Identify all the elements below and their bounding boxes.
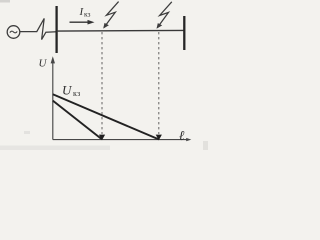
voltage profile line to fault 1 (steep) <box>53 101 102 140</box>
lightning bolt fault 2 <box>157 2 172 29</box>
svg-text:кз: кз <box>84 10 91 19</box>
marker triangle at fault 1 projection <box>99 135 105 141</box>
left busbar <box>55 6 57 53</box>
transmission line (wire between busbars) <box>57 29 185 32</box>
dashed projection from fault 1 <box>101 32 103 134</box>
l axis (horizontal) with arrow <box>53 138 192 141</box>
marker triangle at fault 2 projection <box>156 135 162 141</box>
U axis (vertical) with arrow <box>51 56 55 139</box>
right busbar <box>183 16 185 50</box>
svg-text:ℓ: ℓ <box>179 128 185 143</box>
paper background <box>0 0 224 152</box>
svg-text:U: U <box>62 82 73 97</box>
generator G (AC source circle with tilde) <box>7 26 20 39</box>
lightning bolt fault 1 <box>103 2 118 29</box>
current arrow I_kz <box>70 20 95 25</box>
svg-text:кз: кз <box>73 89 81 98</box>
svg-text:U: U <box>39 58 48 70</box>
dashed projection from fault 2 <box>158 32 160 134</box>
voltage profile line to fault 2 (shallow) <box>53 94 159 139</box>
wire from generator with break (zigzag) symbol <box>20 18 57 39</box>
